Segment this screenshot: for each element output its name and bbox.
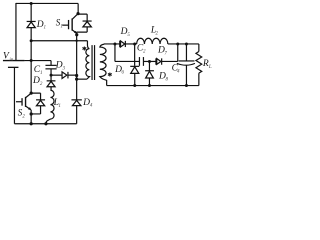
svg-text:1: 1 [58, 104, 61, 109]
polarity star secondary [108, 72, 112, 76]
wire left rail [15, 3, 17, 61]
capacitor C2 [139, 57, 155, 66]
diode S1 antiparallel [77, 21, 92, 32]
svg-text:2: 2 [156, 32, 159, 37]
wire node X1 to X2 [31, 40, 87, 42]
wire secondary top to N1 [104, 43, 120, 45]
svg-text:L: L [208, 65, 212, 70]
svg-text:7: 7 [164, 52, 167, 57]
IGBT S1 [62, 14, 78, 33]
diode D4 [71, 100, 81, 124]
wire node Y to D3 [51, 74, 62, 76]
wire secondary bottom [106, 80, 108, 86]
svg-text:3: 3 [62, 66, 65, 71]
wire primary bottom [77, 78, 87, 80]
diode D6 [130, 66, 139, 85]
svg-text:D: D [32, 76, 40, 86]
polarity star primary [82, 46, 86, 50]
wire S1 emitter column [76, 32, 78, 99]
wire N2 column [134, 44, 136, 66]
svg-text:5: 5 [127, 33, 130, 38]
svg-text:2: 2 [40, 82, 43, 87]
svg-text:2: 2 [22, 115, 25, 120]
diode D1 [27, 3, 36, 93]
wire N1 down [114, 44, 116, 62]
wire top rail [16, 2, 78, 4]
wire S1 diode riser [78, 14, 87, 21]
wire D7 riser [177, 44, 179, 62]
svg-text:4: 4 [177, 69, 180, 74]
transformer core [92, 45, 95, 80]
wire S1 collector from rail [77, 3, 79, 13]
resistor RL [196, 44, 202, 86]
svg-text:1: 1 [60, 25, 63, 30]
wire Vin+ to C1 branch [24, 60, 51, 62]
capacitor C4 [177, 44, 195, 86]
svg-text:1: 1 [40, 71, 43, 76]
wire N1 to C2 [115, 60, 139, 62]
wire output top rail [168, 43, 199, 45]
diode D8 [145, 61, 154, 85]
wire bottom rail [14, 123, 76, 125]
battery Vin plate long [3, 60, 25, 62]
svg-text:R: R [202, 59, 209, 69]
inductor L2 [137, 38, 168, 44]
transformer secondary winding [100, 44, 107, 80]
diode D2 [47, 81, 56, 90]
transformer primary winding [86, 49, 89, 79]
battery Vin plate short [8, 66, 19, 68]
IGBT S2 [16, 93, 31, 123]
wire secondary bottom rail [107, 85, 199, 87]
inductor L1 [46, 90, 54, 124]
diode D7 [156, 58, 178, 64]
svg-text:1: 1 [43, 26, 46, 31]
svg-text:2: 2 [143, 50, 146, 55]
wire battery to bottom rail [13, 67, 15, 123]
transformer primary lead top [87, 41, 89, 49]
capacitor C1 [45, 61, 56, 81]
svg-text:in: in [9, 58, 13, 63]
diode S2 antiparallel [31, 93, 45, 114]
svg-text:8: 8 [165, 77, 168, 82]
svg-text:6: 6 [121, 71, 124, 76]
diode D3 [62, 72, 77, 79]
svg-text:4: 4 [90, 104, 93, 109]
diode D5 [120, 41, 137, 48]
